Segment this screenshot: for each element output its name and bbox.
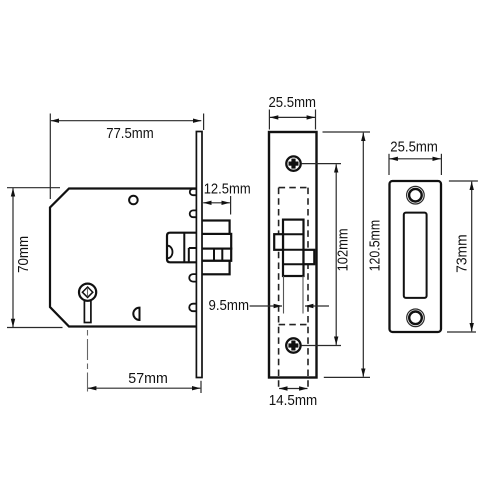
bottom screw: [286, 338, 300, 352]
svg-text:14.5mm: 14.5mm: [269, 393, 318, 409]
fixing tabs on bar: [189, 189, 196, 311]
top screw hole: [407, 186, 425, 204]
dashed mortise outline: [279, 188, 308, 390]
svg-text:57mm: 57mm: [128, 371, 168, 387]
svg-text:12.5mm: 12.5mm: [204, 182, 251, 198]
svg-text:9.5mm: 9.5mm: [209, 298, 250, 314]
deadbolt side view: [202, 221, 232, 275]
key: [79, 284, 96, 323]
faceplate side bar: [196, 132, 202, 378]
bolt width extension lines (9.5mm): [284, 276, 304, 314]
bolt slot: [404, 213, 427, 298]
svg-text:120.5mm: 120.5mm: [368, 220, 384, 272]
lock case outline: [50, 189, 197, 327]
follower hub block: [167, 233, 197, 263]
svg-text:70mm: 70mm: [16, 236, 32, 273]
svg-text:25.5mm: 25.5mm: [269, 95, 317, 111]
bolt front view: [274, 220, 314, 276]
svg-text:73mm: 73mm: [454, 234, 470, 273]
svg-text:25.5mm: 25.5mm: [390, 139, 438, 155]
top screw: [286, 156, 300, 170]
svg-text:77.5mm: 77.5mm: [106, 126, 154, 142]
svg-text:102mm: 102mm: [336, 228, 352, 271]
strike plate: [390, 181, 442, 332]
case top hole: [129, 196, 138, 205]
bottom screw hole: [407, 309, 425, 327]
faceplate: [269, 132, 317, 378]
D shaped cutout: [133, 308, 139, 320]
centerline of keyhole: [87, 270, 89, 392]
